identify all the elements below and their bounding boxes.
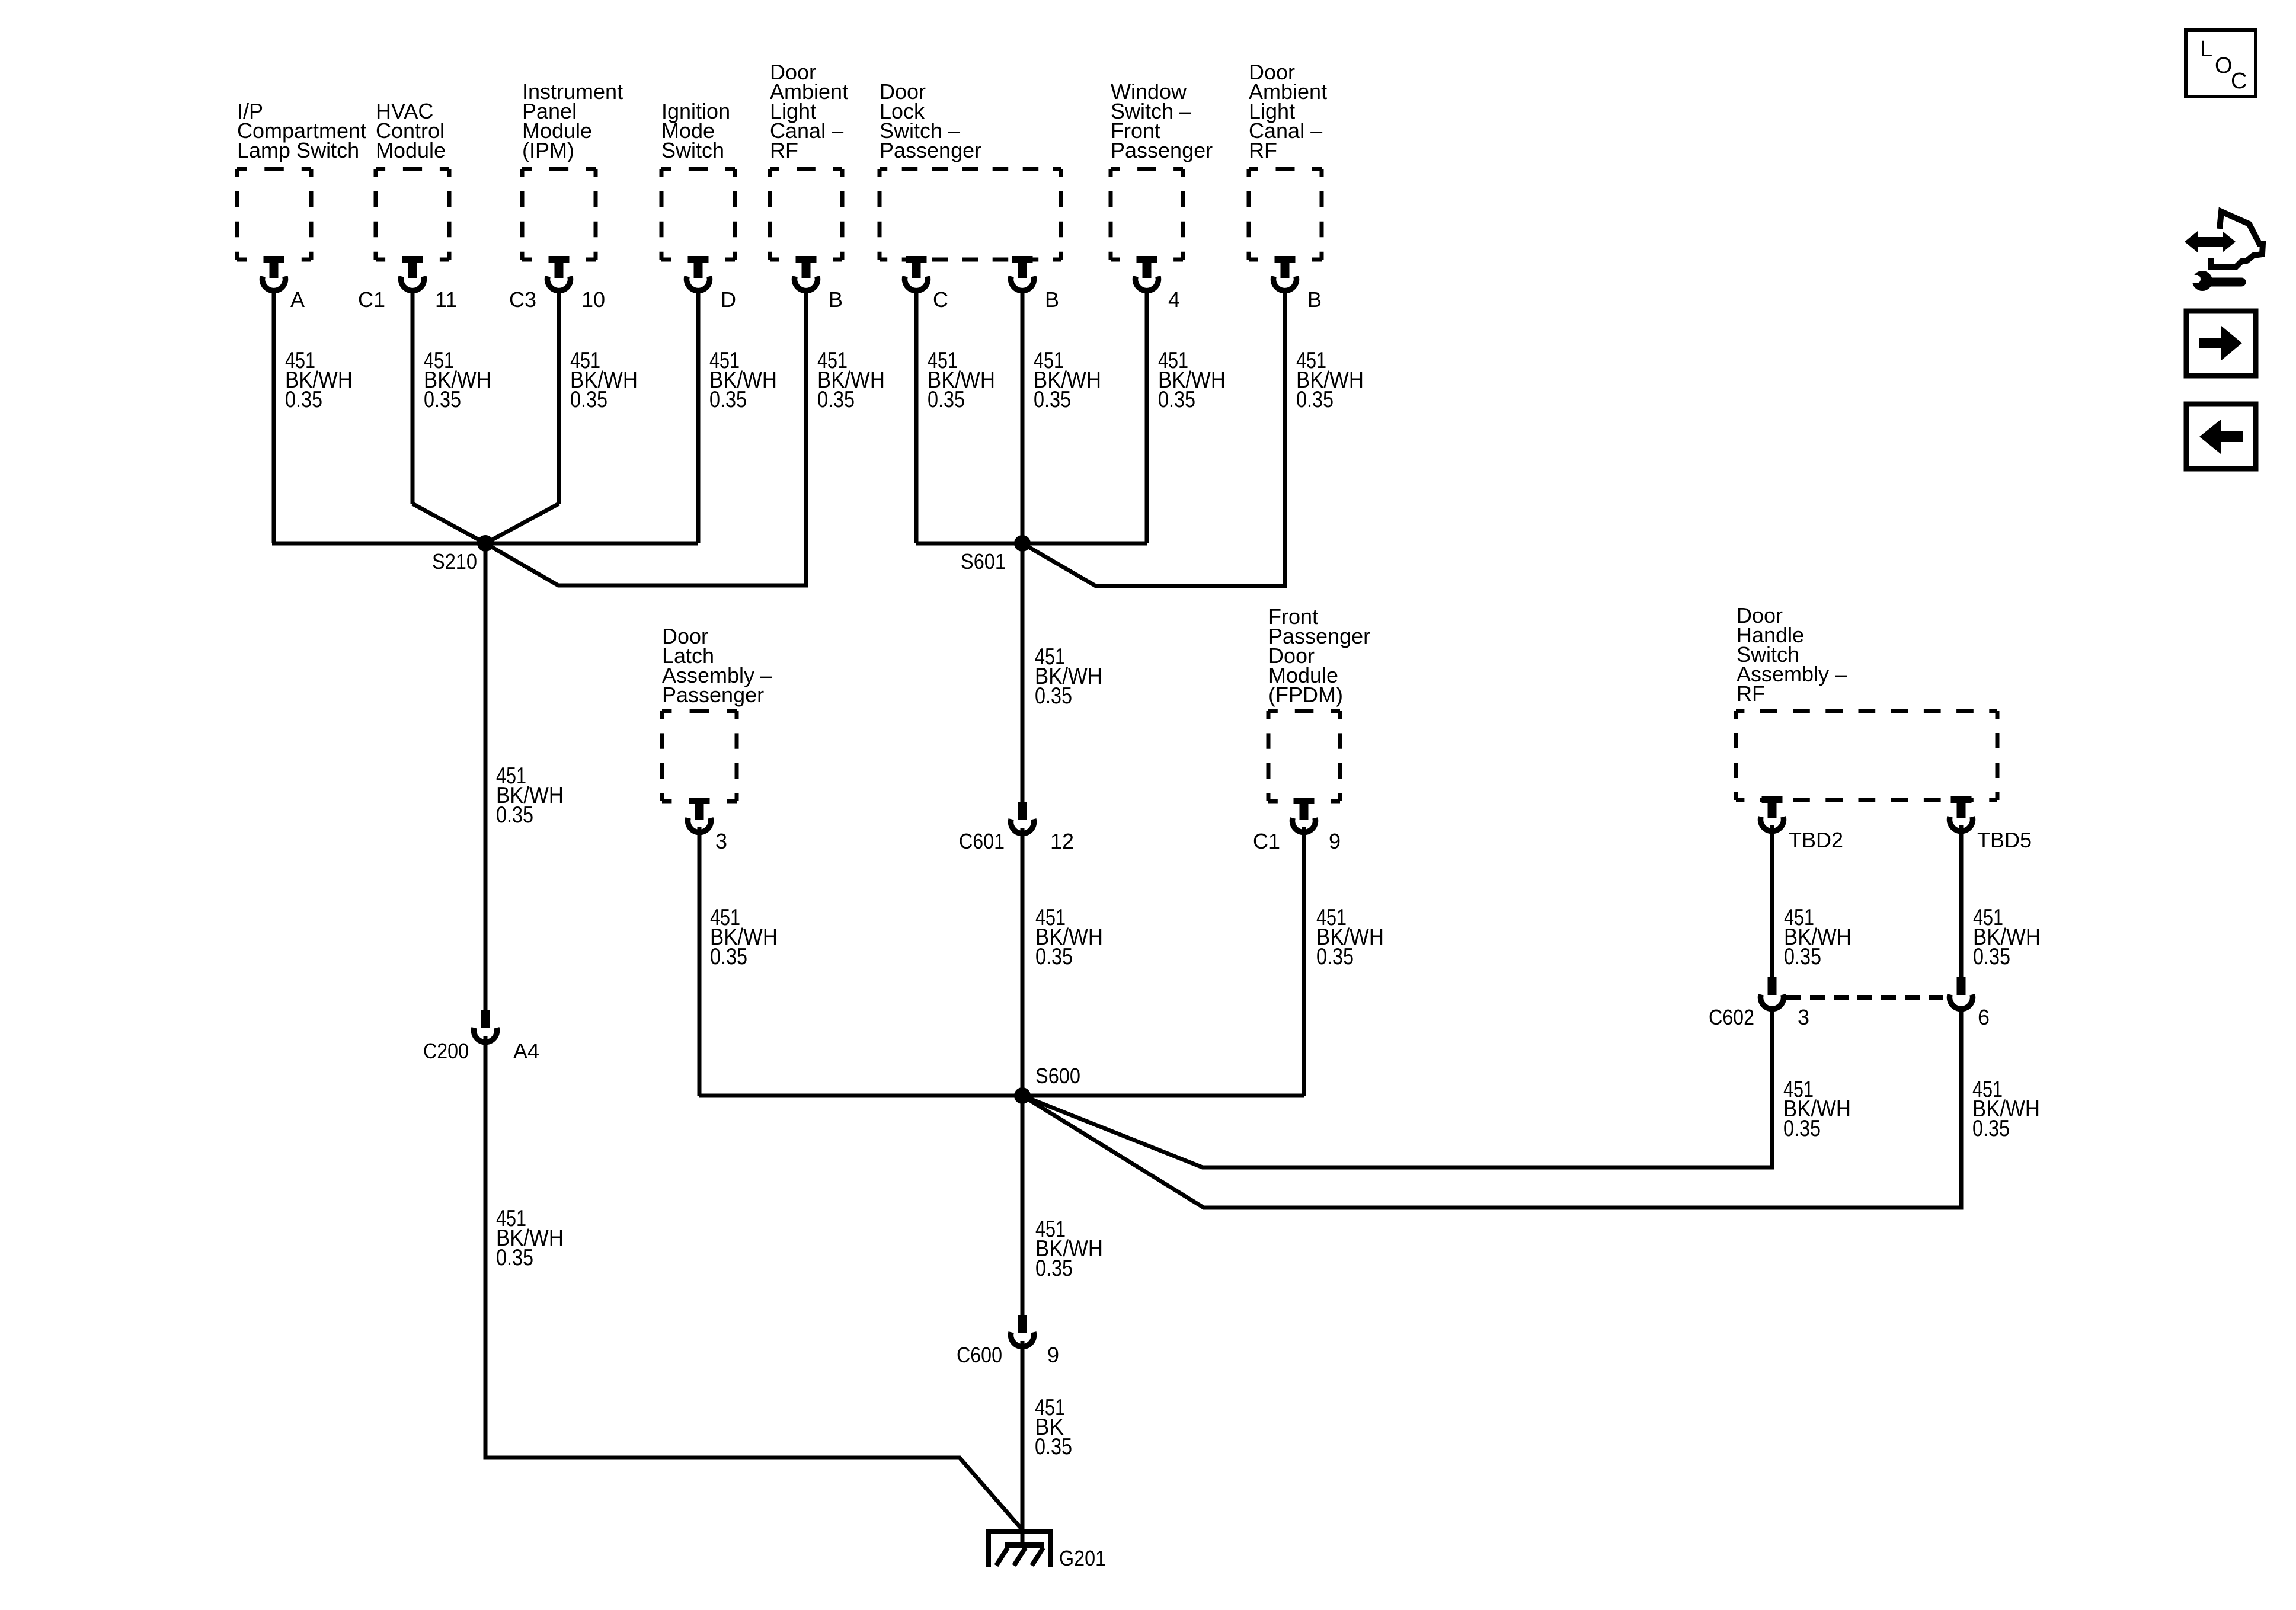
svg-text:RF: RF bbox=[770, 138, 798, 162]
svg-text:0.35: 0.35 bbox=[1296, 387, 1334, 412]
svg-text:L: L bbox=[2200, 37, 2212, 62]
svg-text:TBD5: TBD5 bbox=[1977, 828, 2032, 852]
svg-text:Lamp Switch: Lamp Switch bbox=[237, 138, 359, 162]
svg-text:C1: C1 bbox=[1253, 829, 1280, 853]
svg-text:9: 9 bbox=[1329, 829, 1341, 853]
svg-text:9: 9 bbox=[1047, 1343, 1059, 1367]
svg-text:Switch: Switch bbox=[661, 138, 724, 162]
svg-text:0.35: 0.35 bbox=[709, 387, 747, 412]
svg-text:RF: RF bbox=[1737, 681, 1765, 706]
svg-text:12: 12 bbox=[1050, 829, 1074, 853]
svg-text:0.35: 0.35 bbox=[1034, 387, 1071, 412]
svg-text:0.35: 0.35 bbox=[424, 387, 461, 412]
svg-text:G201: G201 bbox=[1059, 1546, 1106, 1570]
svg-text:C3: C3 bbox=[509, 287, 536, 312]
svg-text:Module: Module bbox=[376, 138, 446, 162]
svg-text:0.35: 0.35 bbox=[1316, 944, 1354, 969]
svg-text:S210: S210 bbox=[432, 549, 477, 574]
svg-text:B: B bbox=[1307, 287, 1322, 312]
svg-text:C: C bbox=[933, 287, 948, 312]
svg-text:C600: C600 bbox=[957, 1343, 1002, 1367]
svg-text:0.35: 0.35 bbox=[570, 387, 607, 412]
svg-text:0.35: 0.35 bbox=[496, 802, 533, 828]
svg-text:C1: C1 bbox=[358, 287, 385, 312]
svg-text:Passenger: Passenger bbox=[1111, 138, 1213, 162]
svg-text:B: B bbox=[829, 287, 843, 312]
svg-text:Passenger: Passenger bbox=[880, 138, 981, 162]
svg-text:0.35: 0.35 bbox=[817, 387, 855, 412]
svg-text:0.35: 0.35 bbox=[1035, 944, 1073, 969]
svg-text:C200: C200 bbox=[423, 1039, 469, 1063]
svg-text:3: 3 bbox=[715, 829, 727, 853]
svg-text:(IPM): (IPM) bbox=[522, 138, 574, 162]
svg-text:0.35: 0.35 bbox=[928, 387, 965, 412]
svg-text:11: 11 bbox=[435, 287, 457, 312]
svg-text:0.35: 0.35 bbox=[1035, 1256, 1073, 1281]
svg-text:S600: S600 bbox=[1035, 1064, 1080, 1088]
svg-text:10: 10 bbox=[581, 287, 605, 312]
svg-text:0.35: 0.35 bbox=[1035, 1434, 1072, 1459]
svg-text:O: O bbox=[2215, 53, 2233, 78]
svg-text:0.35: 0.35 bbox=[1035, 683, 1072, 709]
svg-text:Passenger: Passenger bbox=[662, 683, 764, 707]
svg-text:A: A bbox=[290, 287, 305, 312]
svg-text:3: 3 bbox=[1798, 1005, 1809, 1029]
svg-text:(FPDM): (FPDM) bbox=[1268, 683, 1343, 707]
svg-text:RF: RF bbox=[1249, 138, 1277, 162]
svg-text:C602: C602 bbox=[1709, 1005, 1754, 1029]
svg-text:0.35: 0.35 bbox=[1783, 1116, 1821, 1141]
svg-text:C: C bbox=[2231, 69, 2247, 94]
svg-text:0.35: 0.35 bbox=[496, 1245, 533, 1270]
svg-text:0.35: 0.35 bbox=[710, 944, 747, 969]
svg-text:0.35: 0.35 bbox=[1973, 944, 2010, 969]
svg-text:C601: C601 bbox=[959, 829, 1005, 853]
svg-text:6: 6 bbox=[1978, 1005, 1990, 1029]
svg-text:D: D bbox=[721, 287, 736, 312]
svg-text:S601: S601 bbox=[961, 549, 1006, 574]
svg-text:4: 4 bbox=[1168, 287, 1180, 312]
svg-text:0.35: 0.35 bbox=[1784, 944, 1821, 969]
svg-text:0.35: 0.35 bbox=[285, 387, 322, 412]
svg-text:A4: A4 bbox=[513, 1039, 539, 1063]
svg-text:B: B bbox=[1045, 287, 1059, 312]
svg-text:0.35: 0.35 bbox=[1972, 1116, 2010, 1141]
svg-text:TBD2: TBD2 bbox=[1789, 828, 1843, 852]
svg-text:0.35: 0.35 bbox=[1158, 387, 1195, 412]
